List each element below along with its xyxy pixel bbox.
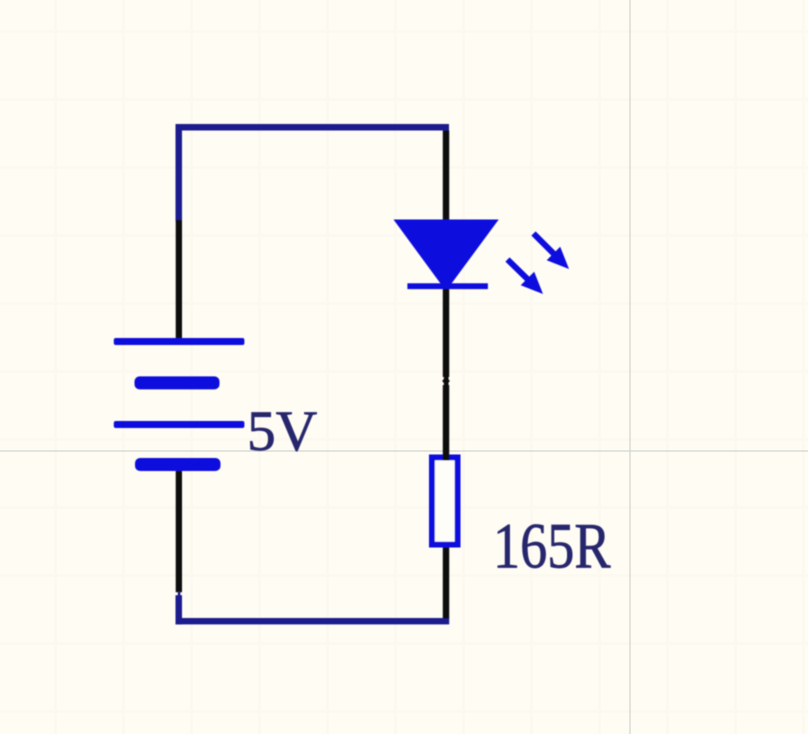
resistor value label 165R [493, 510, 611, 582]
resistor R1 body [432, 457, 458, 544]
battery BT1 plate long positive [114, 421, 245, 428]
window pane divider horizontal [0, 450, 808, 451]
battery BT1 plate short negative bottom [135, 458, 221, 471]
wire left vertical upper (blue segment) [176, 124, 183, 221]
svg-text:165R: 165R [493, 510, 611, 582]
wire right vertical LED cathode to junction [443, 289, 449, 377]
node wire-end pinch left [178, 591, 180, 596]
window pane divider vertical [629, 0, 630, 734]
battery BT1 plate short negative [135, 376, 220, 389]
wire left vertical lower (blue segment) [176, 595, 183, 624]
battery value label 5V [247, 400, 317, 463]
wire right vertical from top corner to LED anode [443, 131, 449, 221]
battery BT1 5V plate long positive top [114, 338, 245, 345]
LED light arrow upper [534, 234, 570, 270]
node junction between LED and resistor [442, 374, 450, 386]
wire left vertical below battery [176, 471, 182, 592]
wire right vertical resistor to bottom corner [443, 548, 449, 619]
LED D1 cathode bar [407, 283, 488, 289]
wire top horizontal (net VCC) [176, 124, 450, 131]
wire bottom horizontal (return net) [176, 618, 450, 624]
LED light arrow lower [508, 260, 544, 295]
wire right vertical junction to resistor [443, 385, 449, 461]
wire left vertical to battery positive [176, 220, 182, 339]
LED D1 anode triangle [394, 220, 499, 292]
svg-text:5V: 5V [247, 400, 317, 463]
